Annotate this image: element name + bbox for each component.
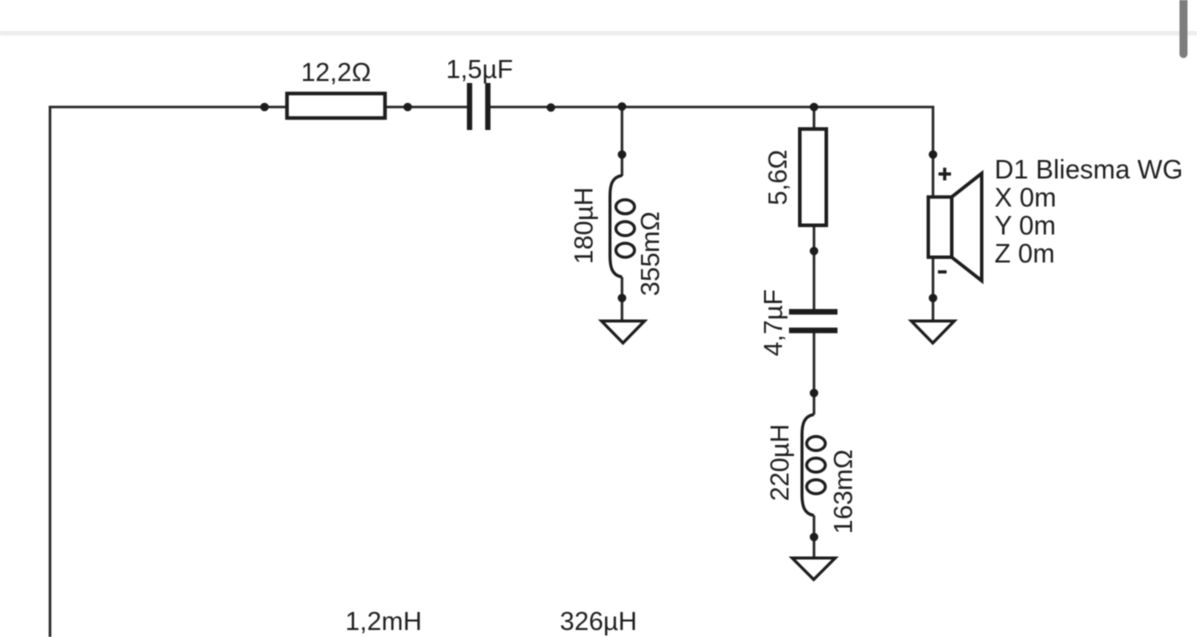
svg-text:4,7µF: 4,7µF xyxy=(758,289,788,356)
svg-text:1,5µF: 1,5µF xyxy=(446,54,513,84)
svg-text:355mΩ: 355mΩ xyxy=(635,211,665,295)
svg-text:Y 0m: Y 0m xyxy=(995,210,1056,240)
svg-text:163mΩ: 163mΩ xyxy=(828,449,858,533)
svg-text:180µH: 180µH xyxy=(569,187,599,264)
svg-text:220µH: 220µH xyxy=(765,424,795,501)
svg-text:D1 Bliesma WG: D1 Bliesma WG xyxy=(995,154,1183,184)
svg-text:5,6Ω: 5,6Ω xyxy=(763,150,793,206)
svg-text:12,2Ω: 12,2Ω xyxy=(301,57,371,87)
svg-text:1,2mH: 1,2mH xyxy=(345,606,422,636)
svg-text:Z 0m: Z 0m xyxy=(995,238,1055,268)
svg-text:X 0m: X 0m xyxy=(995,182,1057,212)
svg-text:326µH: 326µH xyxy=(560,606,637,636)
